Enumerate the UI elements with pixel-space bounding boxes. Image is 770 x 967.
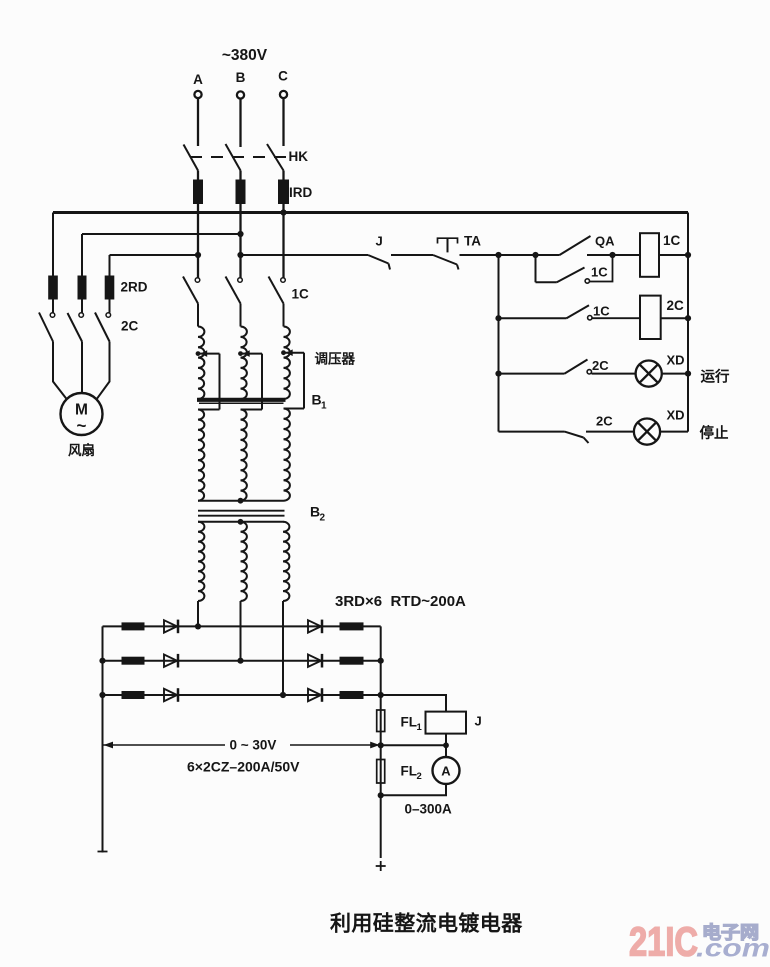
wire lamp to right rail rung4 (660, 431, 689, 433)
regulator B1 core (197, 398, 286, 402)
regulator wiper tap (198, 353, 220, 355)
svg-text:XD: XD (667, 353, 685, 368)
wire phase c bus to 1C contact (282, 213, 284, 278)
diode row3 right (308, 689, 321, 701)
wire tap down (303, 353, 305, 409)
relay coil J (426, 712, 467, 734)
wire line2 corner down to fan fuse2 (81, 234, 83, 276)
positive terminal plus (376, 865, 386, 867)
wire 1C pole c to winding (283, 304, 285, 327)
wire rail to ammeter branch (381, 744, 446, 746)
wire rectifier row1 (103, 625, 381, 627)
node J-ammeter junction (443, 742, 449, 748)
svg-text:1C: 1C (591, 265, 608, 280)
wire lamp to right rail rung3 (661, 373, 688, 375)
wire row3 to relay J coil (381, 695, 446, 712)
fuse 2RD-2 (78, 276, 87, 300)
node left rail rung2 (495, 315, 501, 321)
fuse row1 left (122, 622, 145, 630)
svg-text:B: B (236, 70, 246, 85)
node right rail row3 (378, 692, 384, 698)
terminal B (237, 91, 244, 98)
contactor 2C pole3 blade (95, 313, 110, 342)
wire B2 secondary rail (198, 521, 284, 523)
third line (phase A) horizontal (110, 254, 199, 256)
node right rail rung3 (685, 371, 691, 377)
svg-text:FL: FL (401, 715, 418, 730)
node left rail rung3 (495, 371, 501, 377)
node line3-phase A junction (195, 252, 201, 258)
diode row2 left (164, 655, 177, 667)
regulator B1 primary winding c (284, 327, 290, 400)
wire line3 corner down to fan fuse3 (109, 255, 111, 276)
regulator B1 secondary winding c (284, 409, 290, 501)
fuse row1 right (340, 622, 364, 630)
wire B blade to fuse (239, 171, 241, 181)
wire tap to secondary top (284, 408, 305, 410)
node left rail row2 (99, 658, 105, 664)
wire tap down (219, 354, 221, 410)
svg-text:6×2CZ–200A/50V: 6×2CZ–200A/50V (187, 759, 300, 775)
wire winding a to row1 (197, 601, 199, 626)
node control-phase B (237, 252, 243, 258)
svg-text:XD: XD (667, 408, 685, 423)
switch HK pole A blade (184, 145, 199, 171)
fuse row3 right (340, 691, 364, 699)
svg-text:J: J (376, 234, 383, 249)
wire phase C drop (282, 98, 284, 146)
wire J to TA (391, 254, 433, 256)
wire phase A drop (197, 98, 199, 146)
svg-text:1C: 1C (663, 233, 681, 248)
thermal relay TA contact blade (433, 255, 457, 265)
motor M fan (61, 393, 103, 435)
fuse row2 right (340, 657, 364, 665)
fuse 2RD-1 (48, 276, 58, 300)
svg-text:2RD: 2RD (121, 280, 148, 295)
negative terminal tick (98, 851, 108, 853)
wire phase b bus to 1C contact (239, 213, 241, 278)
lamp XD run (636, 361, 662, 387)
transformer B2 secondary winding b (241, 522, 247, 601)
node line2-phase B junction (237, 231, 243, 237)
rectifier right rail (positive) (380, 626, 382, 745)
wire phase B drop (239, 99, 241, 147)
ammeter A (433, 757, 460, 784)
wire to motor right (97, 342, 110, 400)
main bus (phase C) horizontal (53, 211, 688, 214)
wire A blade to fuse (197, 171, 199, 181)
wire coil 1C to right rail (659, 254, 688, 256)
contact 1C rung2 blade (567, 305, 590, 318)
wire to ammeter (445, 745, 447, 757)
contact 2C rung3 fixed point (587, 370, 591, 374)
node right rail row2 (378, 658, 384, 664)
fuse row2 left (122, 657, 145, 665)
switch HK pole C blade (267, 144, 284, 171)
dimension line output 0~30V (103, 744, 226, 746)
ladder right rail from bus (687, 213, 689, 432)
wire positive rail down (380, 745, 382, 858)
wire A fuse to bus (197, 204, 199, 213)
wire ammeter bottom (381, 784, 446, 795)
contactor 1C pole c blade (269, 277, 284, 304)
wire phase a bus to 1C contact (197, 213, 199, 278)
coil 1C (640, 233, 659, 277)
svg-text:利用硅整流电镀电器: 利用硅整流电镀电器 (330, 912, 523, 936)
svg-text:HK: HK (289, 149, 309, 164)
svg-text:3RD×6 RTD~200A: 3RD×6 RTD~200A (335, 593, 466, 610)
relay contact J blade (368, 255, 389, 264)
wire QA to coil 1C (587, 254, 640, 256)
wire self-hold to rejoin (590, 255, 613, 282)
wire self-hold down (535, 255, 537, 282)
node B1 common midpoint (238, 498, 244, 504)
svg-text:0 ~ 30V: 0 ~ 30V (230, 738, 277, 753)
wire TA to QA section (460, 254, 560, 256)
wire winding c to row3 (282, 601, 284, 695)
svg-text:.com: .com (696, 935, 770, 963)
ladder left rail (498, 255, 500, 432)
svg-text:1C: 1C (292, 287, 310, 302)
regulator wiper tap (241, 353, 263, 355)
control line from phase B (241, 254, 369, 256)
svg-text:2C: 2C (592, 358, 609, 373)
wire 1C pole b to winding (240, 304, 242, 327)
contactor 2C pole3 pivot (106, 313, 111, 318)
regulator B1 primary winding a (198, 327, 204, 400)
wire rung4 to lamp (586, 431, 635, 433)
svg-text:2C: 2C (121, 319, 139, 334)
node self-hold rejoin (609, 252, 615, 258)
diode row2 right (308, 655, 321, 667)
terminal C (280, 91, 287, 98)
svg-text:IRD: IRD (289, 185, 313, 200)
wire fuse2 to contact (81, 300, 83, 313)
regulator B1 secondary winding a (198, 410, 204, 501)
diode row3 left (164, 689, 177, 701)
fuse 1RD phase C (278, 180, 289, 205)
wire tap to secondary top (241, 409, 263, 411)
wire coil 2C to right rail (661, 317, 688, 319)
node ladder left rail top (495, 252, 501, 258)
thermal relay TA bracket (438, 238, 458, 243)
node bus-phase C junction (280, 209, 286, 215)
coil 2C (640, 296, 661, 339)
fuse 1RD phase A (193, 180, 203, 205)
fuse FL2 (377, 760, 385, 784)
contactor 1C pole a blade (183, 277, 198, 304)
terminal A (194, 91, 201, 98)
rectifier left rail (negative) (102, 626, 104, 852)
wire B fuse to bus (239, 204, 241, 213)
wire self-hold horizontal (536, 281, 557, 283)
node self-hold branch tap (532, 252, 538, 258)
wire J coil down (445, 734, 447, 746)
wire C blade to fuse (282, 171, 284, 181)
lamp XD stop (634, 419, 660, 445)
node row2 winding b (237, 658, 243, 664)
contactor 1C pole c pivot (281, 278, 286, 283)
svg-text:~380V: ~380V (222, 47, 268, 64)
node output voltage tap (378, 742, 384, 748)
contactor 2C pole2 blade (68, 313, 83, 342)
svg-text:1: 1 (417, 722, 423, 733)
wire to motor left (53, 342, 67, 400)
contact 1C rung2 fixed point (588, 316, 592, 320)
svg-text:A: A (193, 72, 203, 87)
svg-text:FL: FL (401, 764, 418, 779)
wire rung2 left (499, 317, 567, 319)
diode row1 left (164, 620, 177, 632)
regulator B1 secondary winding b (241, 410, 247, 501)
svg-text:0–300A: 0–300A (405, 802, 453, 817)
contactor 1C pole b pivot (238, 278, 243, 283)
svg-text:2C: 2C (667, 298, 685, 313)
contact 2C rung4 blade (565, 432, 584, 438)
wire bus left corner down to fan fuse1 (52, 213, 54, 277)
svg-text:21IC: 21IC (629, 919, 698, 965)
regulator B1 primary winding b (241, 327, 247, 400)
contact 2C rung3 blade (565, 360, 588, 374)
svg-text:2: 2 (320, 513, 326, 524)
second line (phase B) horizontal (82, 233, 241, 235)
fuse FL1 (377, 710, 385, 732)
node row1 winding a (195, 623, 201, 629)
svg-text:C: C (278, 69, 288, 84)
node right rail rung2 (685, 315, 691, 321)
wire to motor middle (81, 342, 83, 394)
diode row1 right (308, 620, 321, 632)
svg-text:运行: 运行 (701, 368, 730, 386)
button QA blade (560, 236, 591, 255)
wire 1C pole a to winding (197, 304, 199, 327)
svg-text:TA: TA (464, 234, 481, 249)
wire rung2 to coil 2C (592, 317, 640, 319)
contact 1C self-hold blade (557, 268, 585, 283)
svg-text:停止: 停止 (700, 424, 729, 442)
svg-text:A: A (441, 764, 451, 779)
svg-text:QA: QA (595, 234, 615, 249)
wire rung3 left (499, 373, 565, 375)
fuse 1RD phase B (236, 180, 246, 205)
wire fuse3 to contact (109, 300, 111, 313)
fuse row3 left (122, 691, 145, 699)
contactor 2C pole1 pivot (50, 313, 55, 318)
node B2 rail midpoint (238, 519, 244, 525)
contactor 1C pole a pivot (195, 278, 200, 283)
svg-text:~: ~ (77, 416, 87, 435)
contactor 2C pole2 pivot (79, 313, 84, 318)
node left rail row3 (99, 692, 105, 698)
transformer B2 core (198, 510, 285, 512)
switch HK pole B blade (226, 144, 241, 171)
wire rectifier row3 (103, 694, 381, 696)
wire tap to secondary top (198, 409, 220, 411)
svg-text:J: J (475, 714, 482, 729)
wire tap down (261, 354, 263, 410)
contactor 2C pole1 blade (39, 313, 53, 342)
node ammeter return (378, 792, 384, 798)
fuse 2RD-3 (105, 276, 115, 300)
svg-text:2: 2 (417, 771, 422, 782)
wire rung4 left (499, 431, 565, 433)
transformer B2 secondary winding c (283, 522, 289, 601)
svg-text:1: 1 (321, 401, 327, 412)
switch HK linkage dashed (190, 156, 288, 158)
regulator wiper tap (284, 352, 305, 354)
node row3 winding c (280, 692, 286, 698)
svg-text:调压器: 调压器 (315, 352, 356, 367)
node right rail rung1 (685, 252, 691, 258)
wire B1 secondary common (198, 500, 284, 502)
wire rectifier row2 (103, 660, 381, 662)
wire fuse1 to contact (52, 300, 54, 313)
svg-text:2C: 2C (596, 414, 613, 429)
svg-text:1C: 1C (593, 304, 610, 319)
svg-text:风扇: 风扇 (68, 442, 95, 458)
wire winding b to row2 (240, 601, 242, 661)
transformer B2 secondary winding a (198, 522, 204, 601)
wire C fuse to bus (282, 204, 284, 213)
contact 1C self-hold fixed point (585, 279, 589, 283)
contactor 1C pole b blade (226, 277, 241, 304)
wire rung3 to lamp (592, 373, 637, 375)
